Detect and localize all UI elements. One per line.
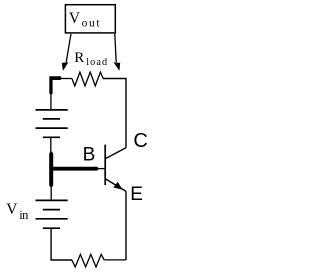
- battery Vin plate short: [43, 209, 60, 211]
- resistor bottom zigzag: [72, 254, 105, 267]
- svg-text:C: C: [133, 130, 147, 152]
- svg-text:load: load: [86, 57, 108, 68]
- resistor Rload zigzag: [72, 72, 103, 86]
- battery 1 plate long top: [36, 109, 68, 111]
- transistor Q1 collector lead: [105, 148, 126, 159]
- wire battery1 top lead: [50, 96, 52, 110]
- svg-text:in: in: [19, 208, 29, 222]
- probe arrow right: [115, 34, 116, 62]
- wire Rload left stub: [61, 78, 72, 80]
- wire battery1 bottom lead: [50, 138, 52, 152]
- node: bold corner at Rload left: [49, 76, 61, 96]
- wire emitter down right side: [125, 191, 127, 260]
- transistor Q1 emitter lead: [105, 179, 126, 192]
- svg-text:out: out: [82, 18, 101, 30]
- wire bottom left segment: [51, 229, 72, 260]
- wire thin to base: [98, 168, 105, 170]
- emitter arrowhead: [113, 182, 122, 190]
- svg-text:E: E: [130, 184, 143, 205]
- transistor Q1 base bar: [104, 145, 106, 185]
- battery 1 plate long: [36, 127, 68, 129]
- bold wire branch to base: [51, 167, 99, 171]
- wire bottom right segment: [105, 259, 127, 261]
- wire battery Vin top lead: [50, 188, 52, 200]
- bold wire vertical bar at base junction: [49, 151, 53, 188]
- battery Vin plate long: [36, 218, 68, 220]
- battery 1 plate short bottom: [43, 136, 60, 138]
- svg-text:V: V: [6, 201, 17, 218]
- svg-text:V: V: [69, 10, 80, 27]
- voltmeter box Vout: [65, 5, 115, 33]
- svg-text:R: R: [74, 50, 84, 66]
- wire Rload right to corner: [103, 79, 126, 148]
- battery 1 plate short: [43, 118, 60, 120]
- probe arrow left: [66, 34, 71, 62]
- battery Vin plate long top: [36, 199, 68, 201]
- svg-text:B: B: [83, 144, 96, 165]
- battery Vin plate short bottom: [43, 227, 60, 229]
